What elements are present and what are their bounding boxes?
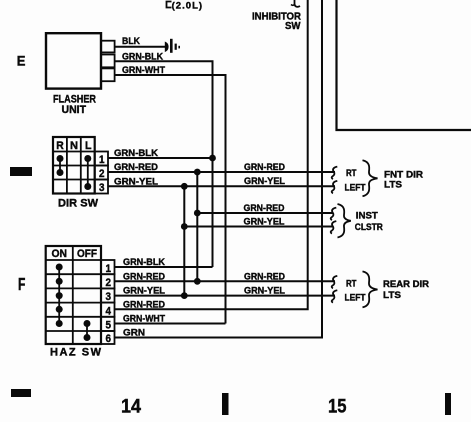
- svg-text:F: F: [18, 274, 26, 294]
- svg-text:OFF: OFF: [77, 248, 97, 260]
- svg-text:14: 14: [121, 397, 141, 418]
- flasher pin 2: [101, 55, 115, 68]
- brace REAR DIR LTS: [363, 271, 378, 307]
- wire GRN-YEL to instrument cluster: [184, 217, 333, 228]
- brace INST CLSTR: [338, 204, 351, 238]
- GRN-YEL bus vertical: [183, 186, 185, 296]
- wire GRN-WHT HAZ pin5: [115, 314, 226, 325]
- svg-text:GRN-RED: GRN-RED: [123, 299, 165, 310]
- DIR SW pin 3: [95, 180, 108, 195]
- svg-text:5: 5: [106, 320, 112, 332]
- svg-text:GRN-BLK: GRN-BLK: [122, 52, 163, 63]
- junction GRN-YEL bus / INST: [181, 223, 188, 230]
- svg-text:GRN-BLK: GRN-BLK: [123, 257, 165, 268]
- FNT DIR LTS label: [384, 169, 423, 190]
- wire GRN-RED DIR pin2 to FNT RT connector: [108, 162, 335, 173]
- connector squiggle INST GRN-RED: [331, 208, 337, 220]
- svg-text:INST: INST: [356, 210, 378, 221]
- svg-text:BLK: BLK: [122, 36, 140, 47]
- wire GRN-WHT flasher pin3 down to HAZ pin5: [115, 65, 226, 323]
- inhibitor switch label: [252, 12, 302, 33]
- flasher pin 3: [101, 68, 115, 81]
- svg-text:GRN-WHT: GRN-WHT: [122, 65, 165, 76]
- brace FNT DIR LTS: [363, 160, 378, 196]
- ground symbol: [165, 39, 180, 53]
- svg-text:2: 2: [106, 277, 112, 289]
- svg-text:E: E: [17, 53, 26, 69]
- wire GRN-BLK flasher pin2 down to junction and HAZ pin1: [115, 52, 213, 268]
- svg-text:GRN-YEL: GRN-YEL: [244, 285, 285, 296]
- svg-text:CLSTR: CLSTR: [355, 222, 383, 233]
- inhibitor switch connector stub: [291, 0, 300, 7]
- svg-text:GRN-BLK: GRN-BLK: [114, 148, 158, 159]
- svg-text:(2.0L): (2.0L): [172, 1, 203, 12]
- svg-text:LEFT: LEFT: [345, 182, 366, 193]
- svg-text:GRN-RED: GRN-RED: [244, 203, 285, 214]
- svg-text:GRN-RED: GRN-RED: [123, 271, 165, 282]
- wire GRN-BLK HAZ pin1: [115, 257, 213, 268]
- GRN-RED bus vertical: [196, 172, 198, 283]
- DIR SW pin 2: [95, 166, 108, 181]
- INST CLSTR label: [355, 210, 383, 233]
- hazard switch HAZ SW: [46, 246, 101, 344]
- svg-text:6: 6: [106, 333, 112, 345]
- wire GRN-YEL DIR pin3 to FNT LEFT connector: [108, 176, 335, 187]
- wire BLK flasher pin1 to ground: [115, 36, 166, 47]
- junction GRN-RED bus / HAZ pin2: [194, 278, 201, 285]
- svg-text:UNIT: UNIT: [62, 104, 87, 116]
- wire GRN-BLK DIR pin1 to GRN-BLK bus: [108, 148, 213, 159]
- junction GRN-RED bus / INST: [194, 210, 201, 217]
- wire GRN-YEL HAZ pin3 to REAR LEFT connector: [115, 285, 336, 296]
- svg-text:GRN-YEL: GRN-YEL: [244, 176, 285, 187]
- margin tick upper: [10, 167, 32, 176]
- svg-text:GRN-WHT: GRN-WHT: [123, 314, 165, 325]
- connector squiggle REAR RT: [332, 276, 338, 288]
- flasher unit label: [53, 94, 96, 117]
- HAZ SW pin 5: [101, 317, 115, 332]
- svg-text:3: 3: [106, 291, 112, 303]
- DIR SW contacts L column: [84, 155, 91, 190]
- REAR DIR LTS label: [383, 279, 429, 301]
- connector squiggle FNT LEFT: [332, 181, 338, 193]
- svg-text:GRN-YEL: GRN-YEL: [244, 217, 285, 228]
- HAZ SW pin 1: [101, 260, 115, 275]
- component box top right: [337, 0, 471, 130]
- svg-text:LTS: LTS: [383, 290, 401, 301]
- connector squiggle INST GRN-YEL: [331, 221, 337, 233]
- svg-text:1: 1: [106, 263, 112, 275]
- junction GRN-BLK bus / DIR pin1: [209, 155, 216, 162]
- svg-text:HAZ SW: HAZ SW: [50, 347, 102, 359]
- svg-text:1: 1: [99, 154, 105, 166]
- svg-text:SW: SW: [285, 21, 301, 32]
- svg-text:4: 4: [106, 305, 112, 317]
- HAZ SW contacts ON column: [56, 264, 63, 328]
- flasher unit: [46, 33, 115, 88]
- HAZ SW contacts OFF column: [84, 320, 91, 341]
- HAZ SW pin 2: [101, 274, 115, 289]
- DIR SW pin 1: [95, 152, 108, 167]
- svg-text:GRN: GRN: [123, 328, 145, 339]
- svg-text:LTS: LTS: [384, 180, 402, 191]
- connector squiggle FNT RT: [332, 167, 338, 179]
- svg-text:R: R: [56, 140, 64, 152]
- wire GRN HAZ pin6 up to top: [115, 0, 323, 339]
- svg-text:ON: ON: [52, 248, 68, 260]
- HAZ SW pin 6: [101, 331, 115, 345]
- HAZ SW pin 4: [101, 303, 115, 318]
- svg-text:RT: RT: [346, 278, 357, 289]
- connector squiggle REAR LEFT: [332, 290, 338, 302]
- junction GRN-RED bus / DIR pin2: [194, 169, 201, 176]
- HAZ SW pin 3: [101, 288, 115, 303]
- page separator bar left: [222, 393, 229, 415]
- junction GRN-YEL bus / DIR pin3: [181, 183, 188, 190]
- svg-text:GRN-YEL: GRN-YEL: [114, 176, 158, 187]
- svg-text:LEFT: LEFT: [345, 293, 366, 304]
- svg-text:2: 2: [99, 168, 105, 180]
- wire GRN-RED HAZ pin2 to REAR RT connector: [115, 271, 336, 282]
- margin tick lower: [11, 389, 31, 397]
- flasher pin 1: [101, 41, 115, 53]
- svg-text:GRN-YEL: GRN-YEL: [123, 286, 165, 297]
- svg-text:N: N: [70, 140, 78, 152]
- wire GRN-RED to instrument cluster: [197, 203, 333, 214]
- svg-text:REAR DIR: REAR DIR: [383, 279, 429, 290]
- svg-text:GRN-RED: GRN-RED: [244, 272, 285, 283]
- svg-text:GRN-RED: GRN-RED: [114, 162, 158, 173]
- svg-text:15: 15: [328, 397, 347, 418]
- svg-text:GRN-RED: GRN-RED: [244, 162, 285, 173]
- direction switch DIR SW: [53, 137, 95, 194]
- svg-text:DIR SW: DIR SW: [58, 198, 99, 210]
- engine variant note (2.0L): [167, 1, 203, 12]
- svg-text:RT: RT: [346, 168, 357, 179]
- DIR SW contacts R column: [57, 155, 64, 176]
- page separator bar right: [445, 393, 451, 415]
- svg-text:3: 3: [99, 182, 105, 194]
- wire GRN-RED HAZ pin4 up to top: [115, 0, 308, 310]
- svg-text:L: L: [85, 140, 92, 152]
- junction GRN-YEL bus / HAZ pin3: [181, 292, 188, 299]
